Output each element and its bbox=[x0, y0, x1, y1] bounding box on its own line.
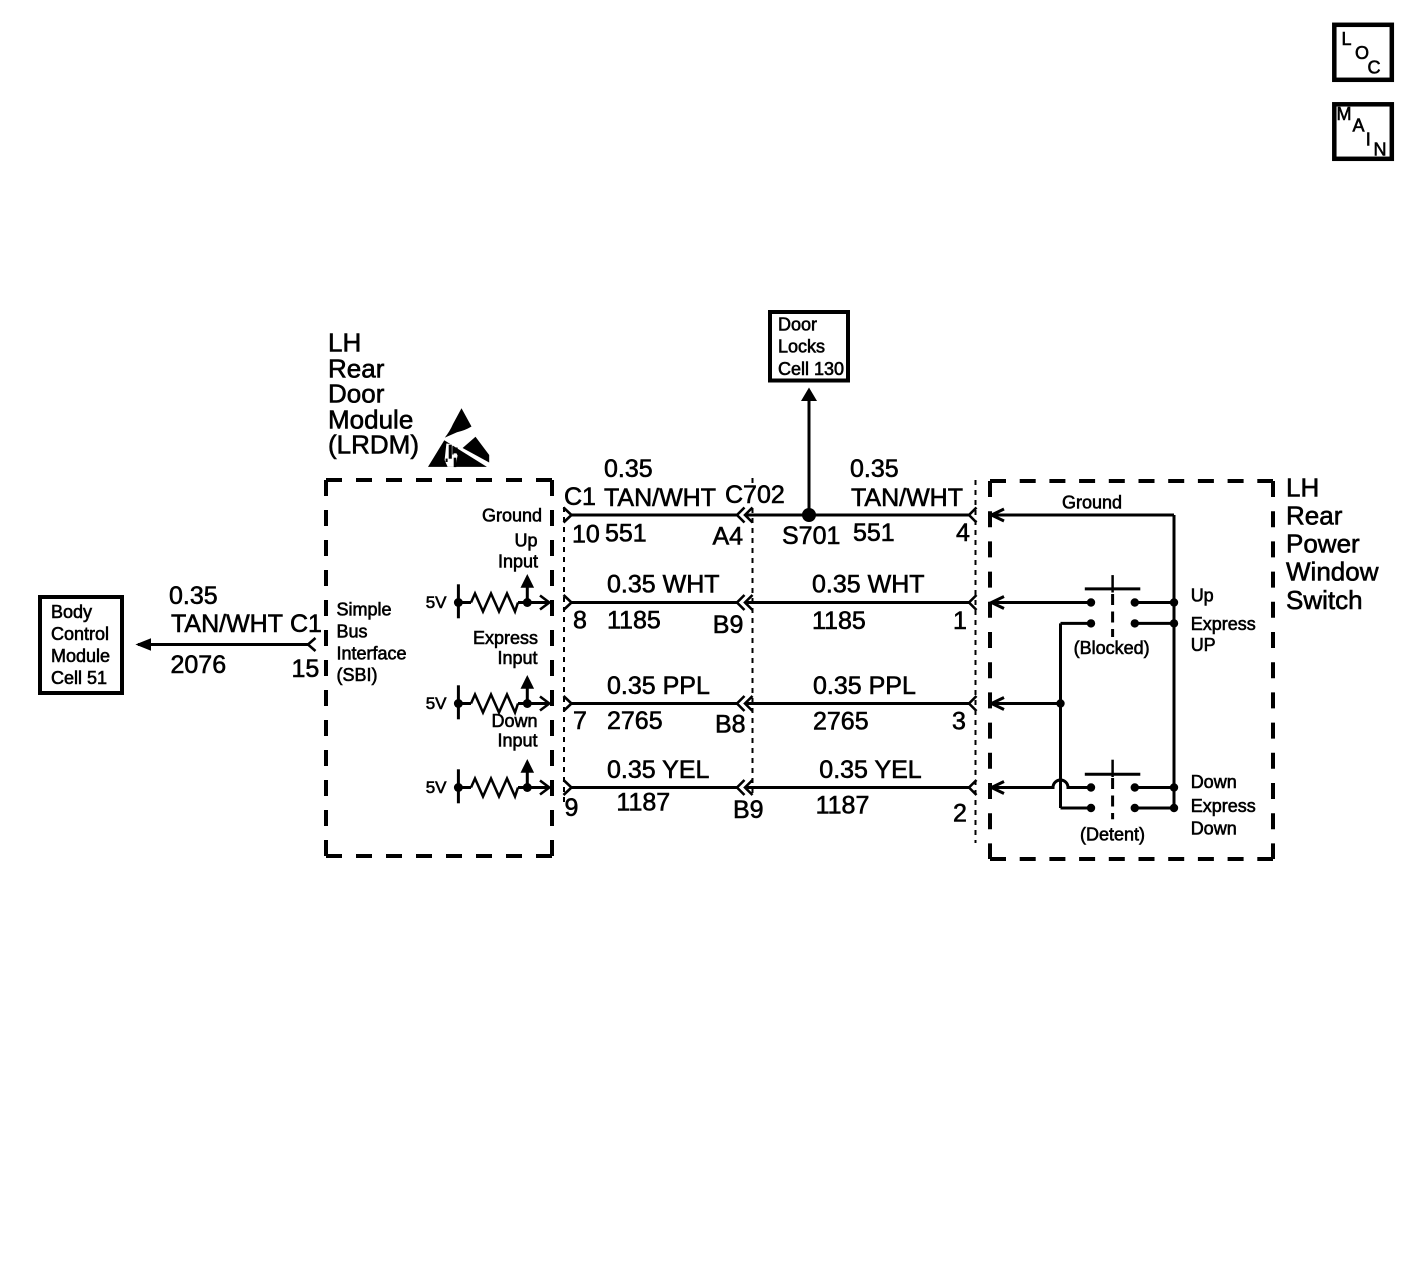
svg-text:10: 10 bbox=[572, 521, 600, 549]
svg-text:B9: B9 bbox=[713, 611, 744, 639]
svg-text:1187: 1187 bbox=[616, 789, 670, 817]
svg-text:1185: 1185 bbox=[812, 607, 866, 635]
svg-text:9: 9 bbox=[565, 794, 579, 822]
svg-text:551: 551 bbox=[853, 519, 895, 547]
svg-text:B8: B8 bbox=[715, 710, 746, 738]
svg-text:5V: 5V bbox=[426, 593, 447, 612]
svg-text:Ground: Ground bbox=[482, 505, 542, 525]
svg-text:LH: LH bbox=[1286, 473, 1319, 503]
svg-text:L: L bbox=[1342, 29, 1352, 49]
svg-text:B9: B9 bbox=[733, 796, 764, 824]
svg-text:Interface: Interface bbox=[337, 643, 407, 663]
svg-text:2076: 2076 bbox=[171, 651, 227, 679]
svg-text:Rear: Rear bbox=[1286, 501, 1343, 531]
svg-text:N: N bbox=[1374, 140, 1387, 160]
svg-text:0.35 YEL: 0.35 YEL bbox=[607, 756, 710, 784]
svg-text:Cell 130: Cell 130 bbox=[778, 359, 844, 379]
svg-text:1185: 1185 bbox=[607, 607, 661, 635]
svg-text:C1: C1 bbox=[290, 610, 322, 638]
svg-text:Express: Express bbox=[1191, 796, 1256, 816]
svg-text:0.35 WHT: 0.35 WHT bbox=[607, 571, 720, 599]
svg-text:UP: UP bbox=[1191, 635, 1216, 655]
svg-text:0.35 WHT: 0.35 WHT bbox=[812, 571, 925, 599]
svg-text:0.35: 0.35 bbox=[850, 455, 899, 483]
svg-text:1: 1 bbox=[953, 607, 967, 635]
svg-text:5V: 5V bbox=[426, 778, 447, 797]
svg-text:1187: 1187 bbox=[816, 792, 870, 820]
svg-text:(Blocked): (Blocked) bbox=[1074, 638, 1150, 658]
svg-text:C1: C1 bbox=[564, 483, 596, 511]
svg-text:Power: Power bbox=[1286, 528, 1360, 558]
svg-text:Module: Module bbox=[51, 646, 110, 666]
svg-text:5V: 5V bbox=[426, 694, 447, 713]
svg-text:8: 8 bbox=[573, 607, 587, 635]
svg-text:15: 15 bbox=[292, 655, 320, 683]
svg-text:(SBI): (SBI) bbox=[337, 665, 378, 685]
svg-text:2: 2 bbox=[953, 799, 967, 827]
svg-text:0.35 PPL: 0.35 PPL bbox=[813, 672, 916, 700]
svg-text:A: A bbox=[1353, 116, 1365, 136]
svg-text:Door: Door bbox=[778, 315, 817, 335]
svg-text:Up: Up bbox=[514, 530, 537, 550]
svg-text:Locks: Locks bbox=[778, 337, 825, 357]
svg-text:Input: Input bbox=[497, 648, 537, 668]
svg-text:TAN/WHT: TAN/WHT bbox=[171, 610, 283, 638]
svg-text:Switch: Switch bbox=[1286, 585, 1363, 615]
svg-text:M: M bbox=[1337, 104, 1352, 124]
svg-text:0.35: 0.35 bbox=[604, 455, 653, 483]
svg-text:Down: Down bbox=[1191, 772, 1237, 792]
svg-text:(Detent): (Detent) bbox=[1080, 825, 1145, 845]
svg-text:0.35 PPL: 0.35 PPL bbox=[607, 672, 710, 700]
svg-text:Body: Body bbox=[51, 602, 92, 622]
svg-text:TAN/WHT: TAN/WHT bbox=[604, 484, 716, 512]
svg-text:0.35 YEL: 0.35 YEL bbox=[819, 756, 922, 784]
svg-text:3: 3 bbox=[952, 708, 966, 736]
svg-text:7: 7 bbox=[573, 707, 587, 735]
svg-text:551: 551 bbox=[605, 519, 647, 547]
svg-text:Control: Control bbox=[51, 624, 109, 644]
svg-text:Cell 51: Cell 51 bbox=[51, 668, 107, 688]
svg-text:Bus: Bus bbox=[337, 622, 368, 642]
svg-text:C702: C702 bbox=[725, 481, 785, 509]
svg-text:Input: Input bbox=[498, 552, 538, 572]
svg-text:Up: Up bbox=[1191, 585, 1214, 605]
svg-text:C: C bbox=[1368, 57, 1381, 77]
svg-text:Input: Input bbox=[497, 731, 537, 751]
svg-text:Ground: Ground bbox=[1062, 493, 1122, 513]
svg-text:Express: Express bbox=[473, 628, 538, 648]
svg-text:Express: Express bbox=[1191, 614, 1256, 634]
svg-text:I: I bbox=[1366, 130, 1371, 150]
svg-text:A4: A4 bbox=[713, 523, 744, 551]
svg-text:Simple: Simple bbox=[337, 600, 392, 620]
svg-text:0.35: 0.35 bbox=[169, 582, 218, 610]
svg-text:4: 4 bbox=[956, 519, 970, 547]
svg-text:TAN/WHT: TAN/WHT bbox=[851, 484, 963, 512]
svg-text:Down: Down bbox=[1191, 819, 1237, 839]
svg-text:S701: S701 bbox=[782, 522, 840, 550]
svg-text:Window: Window bbox=[1286, 557, 1379, 587]
svg-text:2765: 2765 bbox=[607, 707, 663, 735]
svg-text:2765: 2765 bbox=[813, 708, 869, 736]
svg-text:(LRDM): (LRDM) bbox=[328, 430, 419, 460]
